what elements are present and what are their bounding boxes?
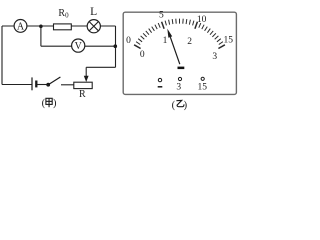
svg-text:15: 15 [198,82,208,92]
svg-text:A: A [17,21,25,32]
wire top (left corner to right corner) [2,25,116,27]
wire voltmeter branch vertical [40,26,42,46]
meter border [123,12,236,94]
needle [167,29,180,65]
switch S [46,77,60,87]
needle pivot dash [178,67,185,70]
svg-text:3: 3 [212,52,217,62]
svg-text:(: ( [172,100,176,111]
svg-text:0: 0 [140,50,145,60]
terminal 3 [176,77,181,92]
svg-text:1: 1 [163,36,168,46]
meter scale ticks [134,19,225,49]
svg-text:(: ( [42,98,46,109]
label (jia) [42,98,57,109]
rheostat R [74,76,92,100]
wire switch to rheostat [61,84,74,86]
svg-text:R: R [79,89,86,100]
battery (cell) [32,77,36,90]
wire wiper horizontal [86,66,115,68]
wire battery to switch [36,84,47,86]
svg-text:15: 15 [223,35,233,45]
terminal minus [158,78,163,86]
svg-text:0: 0 [126,36,131,46]
svg-text:2: 2 [187,37,192,47]
lamp L [87,6,100,33]
svg-text:10: 10 [197,15,207,25]
label (yi) [172,100,188,111]
outer scale numbers [126,11,233,47]
wire left vertical [1,26,3,85]
node B (junction dot right of voltmeter line) [114,44,118,48]
terminal 15 [198,77,208,92]
inner scale numbers [140,36,217,62]
svg-text:V: V [75,41,83,52]
svg-text:5: 5 [159,11,164,21]
node A (junction dot after ammeter) [39,25,43,29]
svg-text:): ) [53,98,57,109]
wire wiper drop [85,67,87,76]
svg-text:L: L [90,6,97,18]
ammeter A [14,20,27,33]
wire voltmeter branch horizontal [41,45,115,47]
wire bottom (left to battery) [2,84,32,86]
voltmeter V [72,39,85,52]
wire right vertical (lamp down to wiper line) [115,26,117,67]
svg-text:3: 3 [176,82,181,92]
resistor R0 [54,8,72,30]
